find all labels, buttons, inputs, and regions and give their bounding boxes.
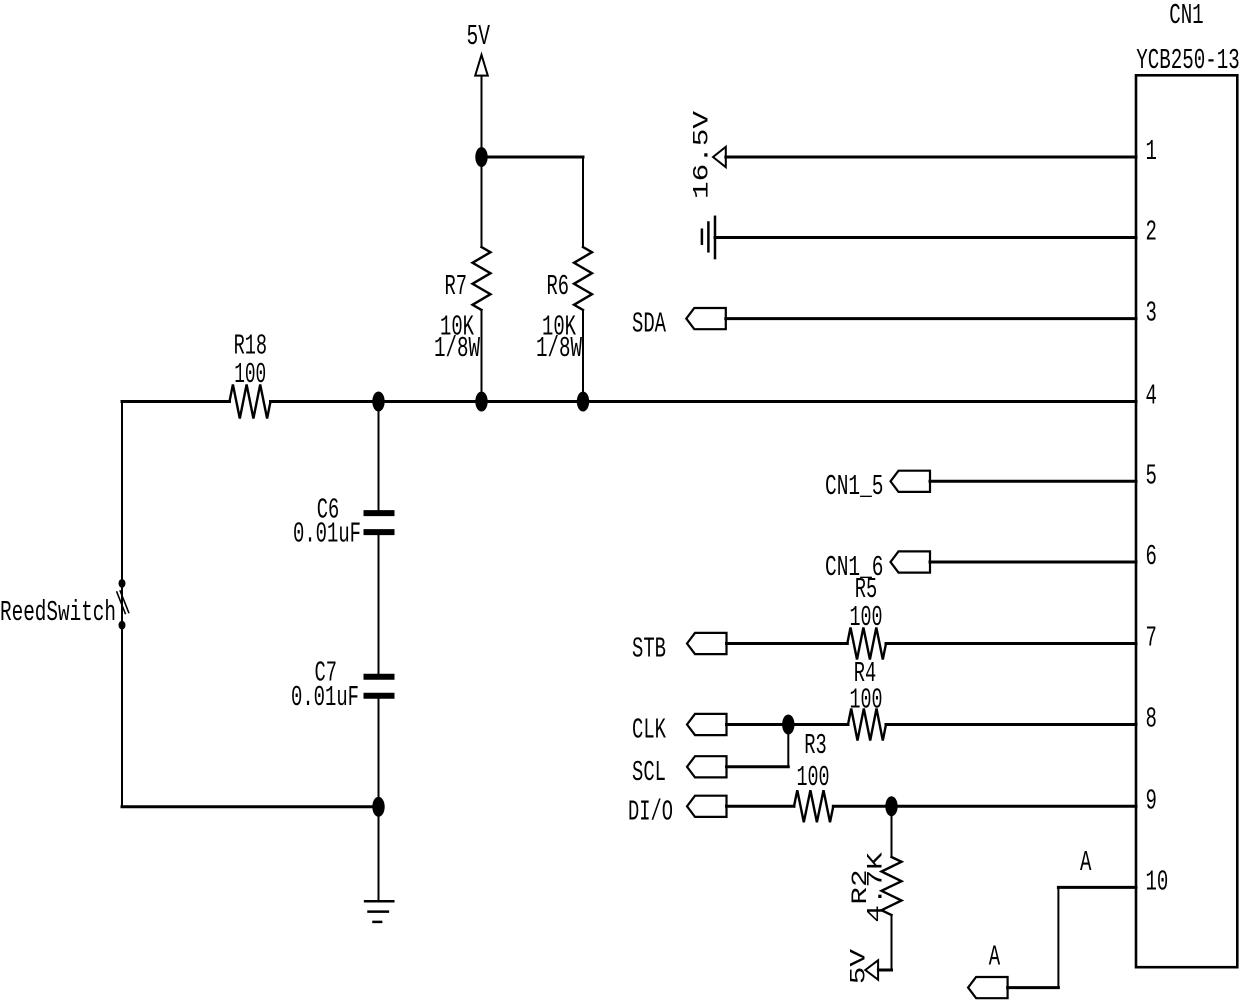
svg-text:1/8W: 1/8W [536, 332, 582, 365]
svg-text:6: 6 [1146, 540, 1157, 573]
svg-text:0.01uF: 0.01uF [291, 681, 359, 714]
svg-text:10: 10 [1146, 865, 1169, 898]
svg-text:A: A [989, 940, 1001, 973]
svg-text:CLK: CLK [632, 714, 666, 747]
svg-text:5: 5 [1146, 459, 1157, 492]
svg-text:SDA: SDA [632, 308, 666, 341]
svg-text:2: 2 [1146, 216, 1157, 249]
svg-text:8: 8 [1146, 703, 1157, 736]
svg-text:4: 4 [1146, 380, 1157, 413]
svg-text:100: 100 [850, 684, 883, 717]
svg-text:DI/O: DI/O [628, 796, 673, 829]
svg-text:A: A [1080, 846, 1092, 879]
svg-text:100: 100 [797, 761, 830, 794]
svg-text:100: 100 [850, 601, 883, 634]
svg-text:3: 3 [1146, 297, 1157, 330]
svg-text:7: 7 [1146, 622, 1157, 655]
svg-text:R6: R6 [547, 270, 570, 303]
svg-text:5V: 5V [467, 20, 491, 53]
svg-text:CN1_5: CN1_5 [825, 470, 884, 503]
svg-text:1/8W: 1/8W [434, 332, 480, 365]
svg-text:9: 9 [1146, 784, 1157, 817]
svg-text:ReedSwitch: ReedSwitch [0, 596, 116, 629]
svg-text:1: 1 [1146, 135, 1157, 168]
svg-text:R7: R7 [445, 270, 468, 303]
svg-text:YCB250-13: YCB250-13 [1136, 44, 1240, 77]
svg-text:STB: STB [632, 633, 666, 666]
svg-text:5V: 5V [847, 948, 872, 984]
svg-text:16.5V: 16.5V [690, 110, 715, 199]
svg-text:100: 100 [234, 358, 266, 391]
svg-text:0.01uF: 0.01uF [293, 518, 361, 551]
svg-text:SCL: SCL [632, 756, 666, 789]
svg-text:4.7K: 4.7K [863, 851, 888, 922]
svg-text:R3: R3 [804, 729, 827, 762]
svg-text:CN1: CN1 [1169, 0, 1204, 32]
